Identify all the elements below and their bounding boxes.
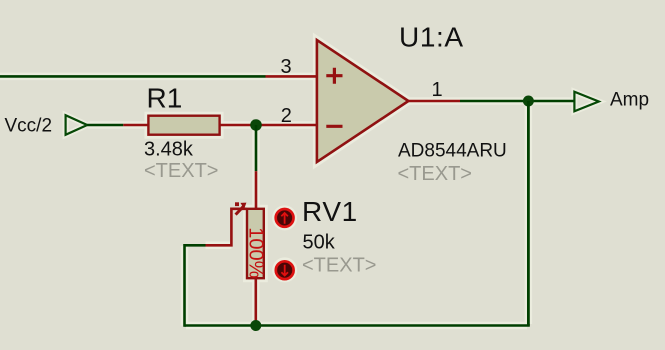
op-amp U1:A: [317, 40, 409, 162]
potentiometer RV1 body: [247, 209, 264, 278]
pin stub: R1 right pin / op-amp pin 2 red segment: [220, 124, 317, 127]
wiper arrow shaft: [236, 206, 244, 214]
svg-text:Amp: Amp: [610, 90, 649, 111]
node junction at RV1 bottom: [250, 320, 261, 331]
pin stub: R1 left pin red: [123, 124, 148, 127]
pin stub: RV1 bottom pin red segment: [255, 278, 258, 322]
pin stub: RV1 wiper pin red segment: [206, 209, 247, 246]
pin stub: RV1 top pin red segment: [255, 171, 258, 208]
wire: bottom horizontal green: [185, 324, 530, 327]
node junction at R1 / RV1 / op-amp pin 2: [250, 119, 262, 131]
svg-text:3.48k: 3.48k: [144, 139, 194, 161]
op-amp plus input symbol: [326, 68, 342, 84]
svg-text:<TEXT>: <TEXT>: [144, 160, 218, 182]
pin stub: op-amp output pin 1 red segment: [408, 100, 460, 103]
wire: left riser green: [183, 244, 186, 327]
op-amp minus input symbol: [326, 125, 342, 128]
terminal Amp: [574, 92, 598, 112]
terminal Vcc/2: [66, 115, 88, 135]
button RV1 increment (up): [276, 209, 294, 227]
svg-text:Vcc/2: Vcc/2: [5, 115, 53, 136]
wire: pin-3 net horizontal green segment: [0, 75, 266, 78]
wire: Vcc/2 to R1 green segment: [87, 124, 123, 127]
pin stub: op-amp pin 3 red segment: [266, 75, 317, 78]
resistor R1: [148, 116, 219, 135]
wiper arrowhead: [240, 203, 246, 209]
wire: wiper feed green segment: [185, 244, 206, 247]
svg-text:AD8544ARU: AD8544ARU: [398, 140, 507, 161]
svg-text:RV1: RV1: [302, 196, 358, 227]
svg-text:3: 3: [281, 56, 292, 78]
svg-text:2: 2: [281, 105, 292, 127]
node junction on output net: [523, 96, 534, 107]
wire: output net right riser green: [527, 101, 530, 326]
svg-text:<TEXT>: <TEXT>: [398, 163, 472, 185]
svg-text:U1:A: U1:A: [399, 21, 464, 52]
wire halo glow layer (light ringing around strokes in source bitmap): [0, 40, 599, 326]
svg-text:1: 1: [432, 79, 443, 101]
wire: junction down green segment: [255, 125, 258, 171]
svg-text:50k: 50k: [303, 232, 336, 254]
svg-text:100%: 100%: [245, 227, 267, 278]
wire: output green segment to Amp terminal: [460, 100, 575, 103]
svg-text:<TEXT>: <TEXT>: [302, 255, 376, 277]
svg-text:R1: R1: [147, 82, 183, 113]
button RV1 decrement (down): [276, 261, 294, 279]
wiper arrow barb: [235, 202, 239, 206]
